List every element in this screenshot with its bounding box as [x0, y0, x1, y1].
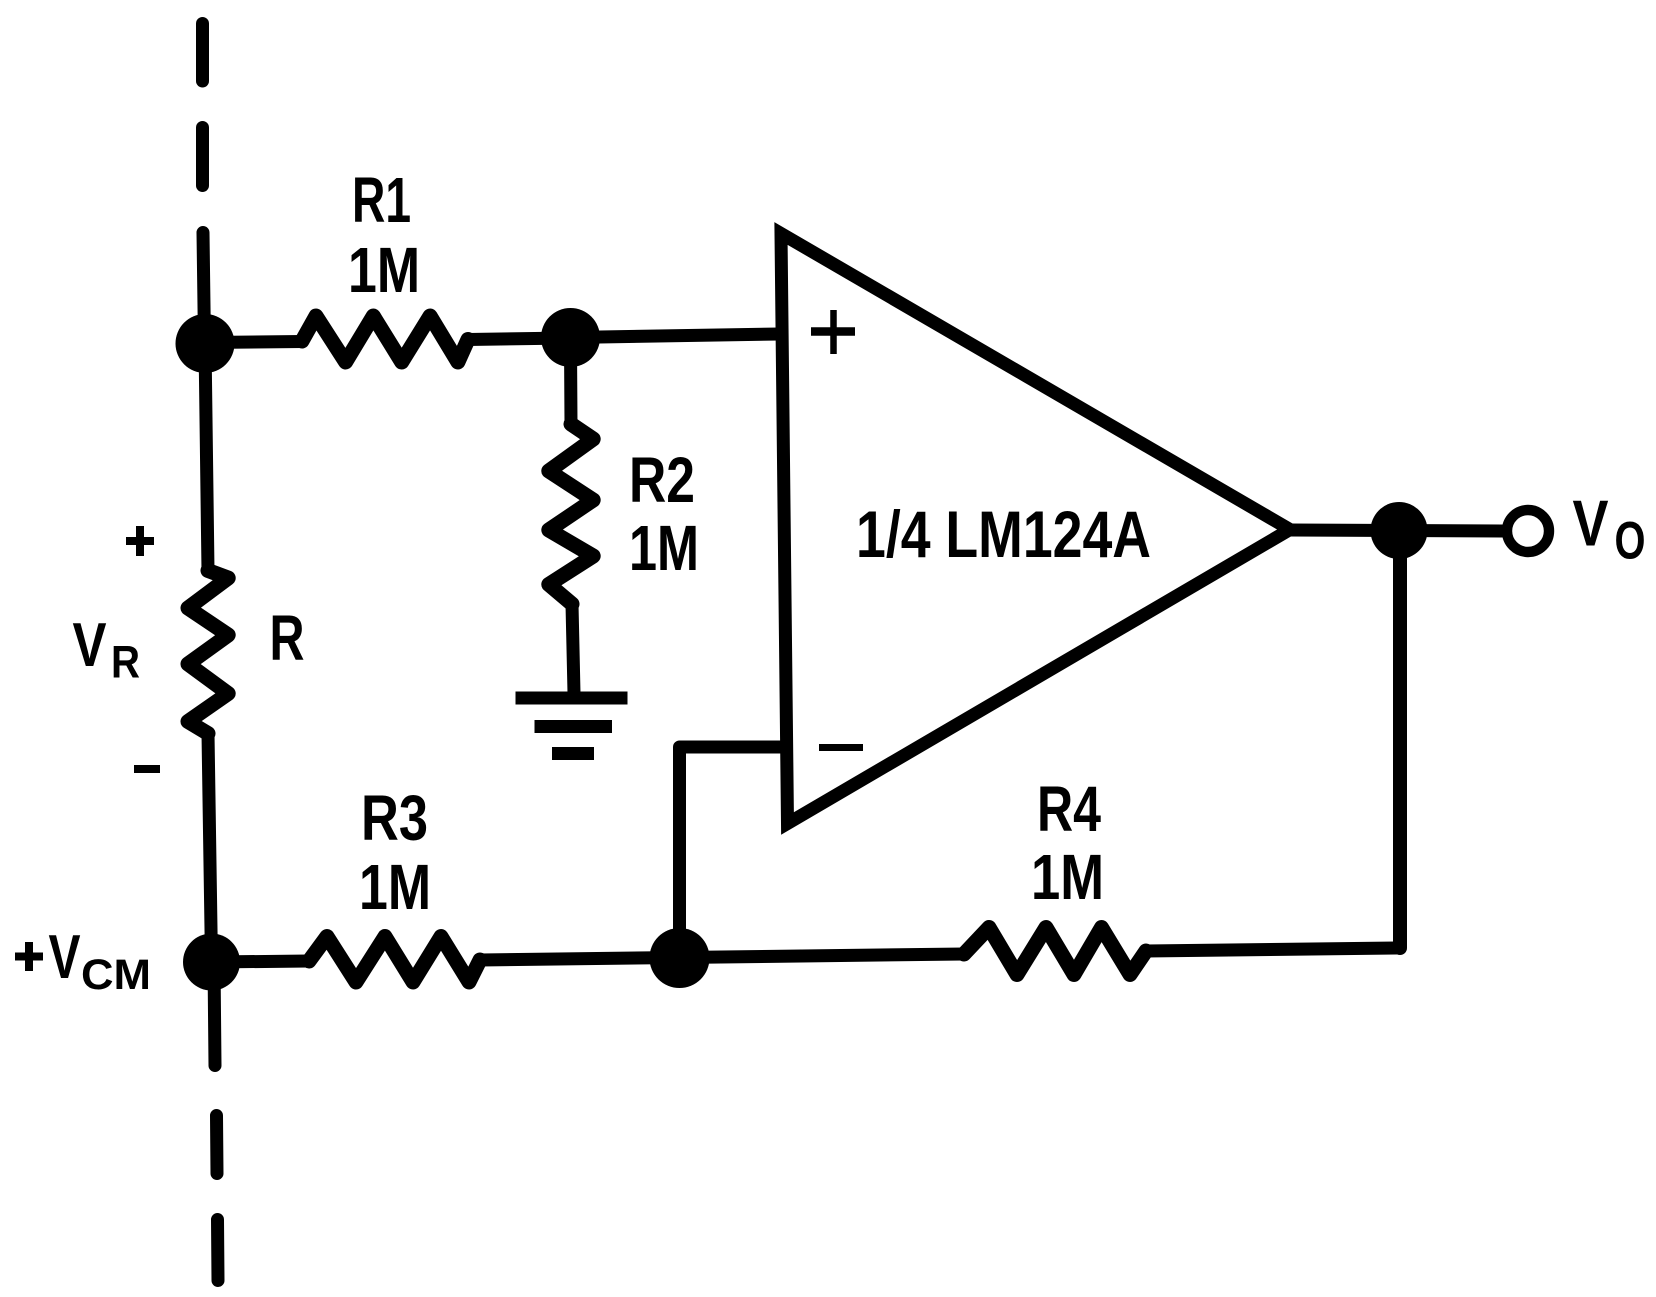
svg-text:R3: R3 [361, 782, 428, 854]
svg-text:1M: 1M [359, 851, 431, 923]
svg-text:1/4 LM124A: 1/4 LM124A [856, 497, 1151, 571]
svg-text:V: V [73, 611, 107, 680]
svg-text:V: V [1573, 487, 1609, 560]
svg-text:R4: R4 [1037, 773, 1101, 845]
svg-text:1M: 1M [1031, 841, 1104, 913]
svg-text:R: R [111, 637, 140, 688]
svg-text:R: R [270, 602, 305, 674]
svg-text:CM: CM [81, 951, 151, 999]
svg-text:V: V [49, 923, 81, 992]
svg-text:R1: R1 [352, 164, 411, 236]
svg-text:1M: 1M [348, 234, 420, 306]
svg-text:1M: 1M [629, 512, 699, 584]
svg-text:R2: R2 [629, 444, 695, 516]
svg-text:O: O [1615, 512, 1646, 571]
